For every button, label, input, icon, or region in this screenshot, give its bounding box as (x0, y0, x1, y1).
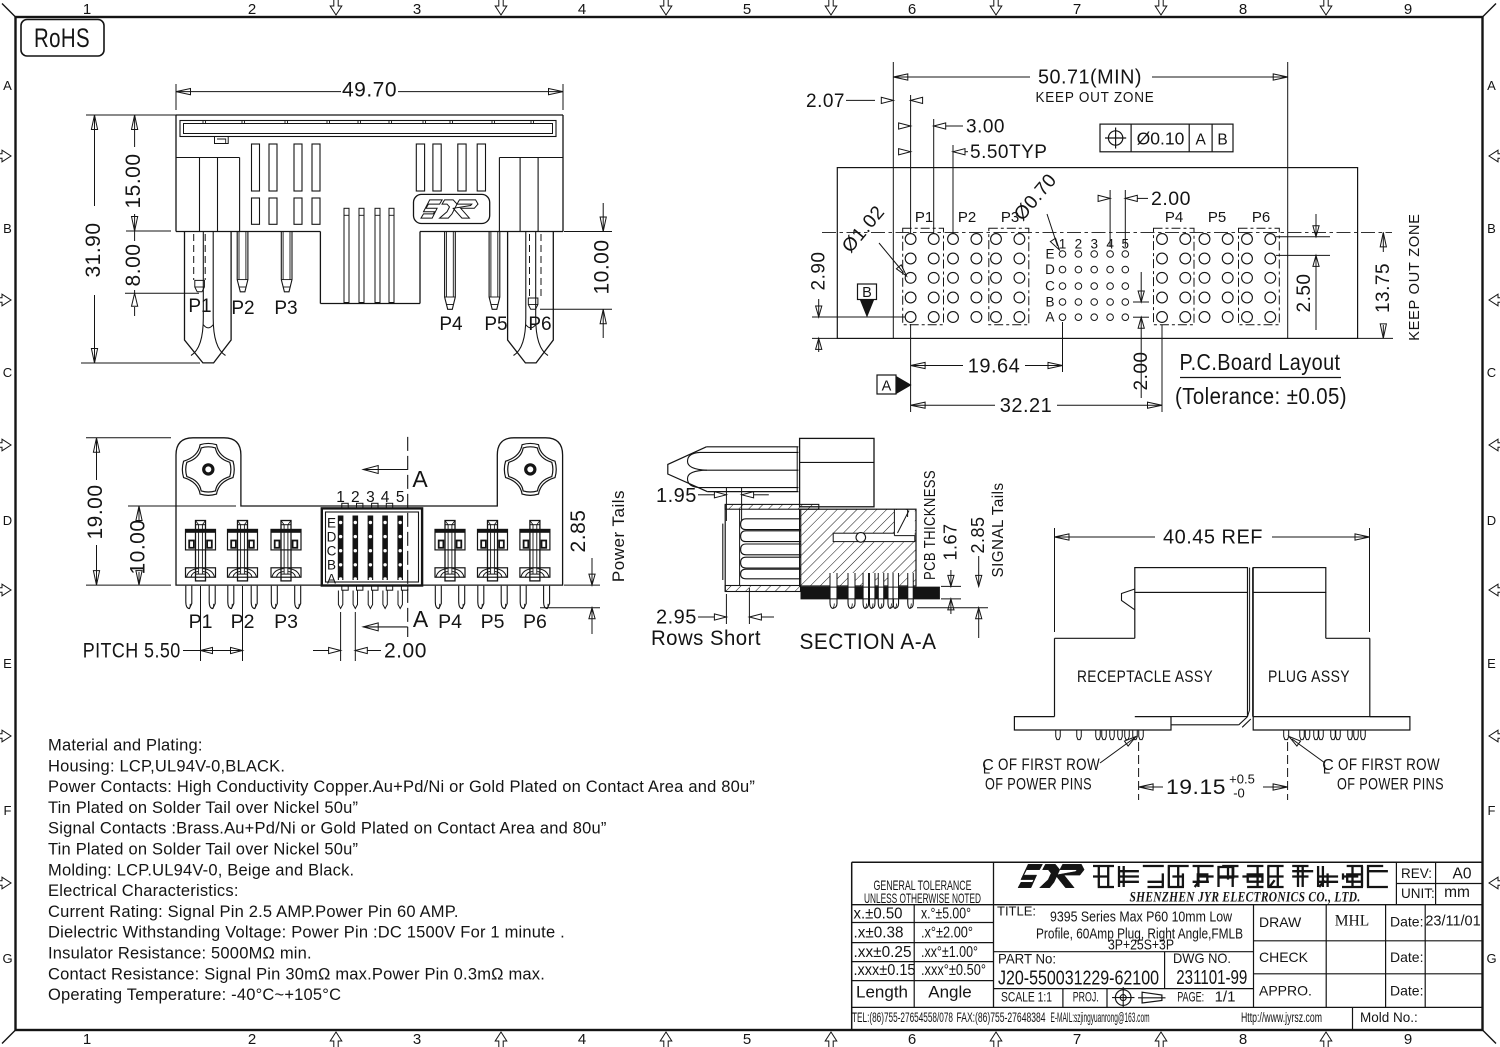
svg-text:2: 2 (248, 1031, 256, 1047)
svg-text:P.C.Board Layout: P.C.Board Layout (1180, 349, 1341, 375)
svg-text:C: C (1045, 279, 1055, 294)
pcb pad boundary P3 (989, 228, 1029, 324)
section A-A receptacle comb (724, 504, 726, 591)
bottom view power contact P4 (435, 529, 465, 550)
svg-text:Current Rating: Signal Pin: Current Rating: Signal Pin 2.5 AMP.Power… (48, 903, 459, 921)
svg-text:KEEP OUT ZONE: KEEP OUT ZONE (1036, 90, 1155, 106)
RoHS label box (21, 20, 104, 57)
svg-text:B: B (327, 558, 336, 573)
assembly receptacle pins (1056, 730, 1061, 740)
svg-text:15.00: 15.00 (122, 153, 145, 208)
svg-text:TITLE:: TITLE: (997, 904, 1036, 919)
svg-text:E: E (1045, 247, 1054, 262)
svg-text:P5: P5 (1208, 209, 1226, 226)
svg-text:2.07: 2.07 (806, 91, 845, 112)
svg-text:C: C (3, 365, 12, 380)
section A-A power pin side (706, 447, 798, 492)
svg-text:A: A (1487, 78, 1496, 93)
centering mark bottom (495, 1032, 507, 1047)
corner diagonal TR (1483, 4, 1497, 18)
svg-text:2.00: 2.00 (1151, 188, 1191, 210)
dimension 2.00 top (1109, 190, 1111, 247)
svg-text:PROJ.: PROJ. (1073, 989, 1099, 1005)
svg-text:2.85: 2.85 (567, 510, 590, 553)
svg-text:FAX:(86)755-27648384: FAX:(86)755-27648384 (957, 1010, 1046, 1025)
centering mark top (330, 0, 342, 15)
title block outer (852, 861, 1483, 863)
svg-text:DWG NO.: DWG NO. (1173, 950, 1231, 966)
centering mark top (990, 0, 1002, 15)
svg-text:4: 4 (578, 1031, 586, 1047)
dimension 19.00 (86, 437, 171, 439)
svg-text:23/11/01: 23/11/01 (1425, 914, 1480, 930)
bottom view power contact P6 (520, 529, 550, 550)
svg-text:B: B (1045, 295, 1054, 310)
svg-text:31.90: 31.90 (82, 222, 105, 277)
svg-text:Power Tails: Power Tails (609, 490, 628, 582)
svg-text:32.21: 32.21 (1000, 395, 1053, 417)
svg-text:P4: P4 (438, 611, 462, 633)
dimension 2.85 bottom view (564, 584, 600, 586)
svg-text:1.67: 1.67 (940, 523, 960, 560)
svg-text:7: 7 (1073, 1, 1081, 18)
centering mark bottom (330, 1032, 342, 1047)
svg-text:49.70: 49.70 (342, 79, 397, 102)
svg-text:B: B (1487, 221, 1496, 236)
dimension 32.21 (910, 372, 912, 412)
svg-text:2.85: 2.85 (968, 516, 988, 553)
dimension 2.00 rows (1133, 301, 1149, 303)
pcb pad boundary P4 (1154, 228, 1195, 324)
svg-text:19.15: 19.15 (1166, 776, 1226, 799)
svg-text:19.00: 19.00 (84, 484, 107, 539)
svg-text:Date:: Date: (1390, 914, 1423, 930)
svg-text:19.64: 19.64 (968, 356, 1021, 378)
dimension pitch 5.50 (200, 586, 202, 661)
title block tolerance table (852, 904, 1483, 906)
section A-A solder tail 1 (830, 573, 837, 599)
centering mark top (495, 0, 507, 15)
svg-text:A: A (1196, 132, 1207, 149)
svg-text:5: 5 (396, 489, 405, 506)
svg-text:Operating Temperature: -40°C~: Operating Temperature: -40°C~+105°C (48, 986, 341, 1004)
svg-text:231101-99: 231101-99 (1176, 967, 1247, 989)
corner diagonal TL (2, 4, 16, 18)
rev and unit cells (1395, 862, 1397, 905)
assembly joint plate (1171, 716, 1247, 718)
company name chinese (1093, 866, 1114, 887)
bottom view signal column 1 contacts (338, 516, 344, 581)
centering mark left (0, 877, 11, 889)
svg-text:E: E (1487, 656, 1496, 671)
svg-text:2: 2 (1075, 237, 1083, 252)
svg-text:SECTION A-A: SECTION A-A (800, 629, 937, 654)
svg-text:PLUG ASSY: PLUG ASSY (1268, 667, 1350, 686)
section A-A solder tail 5 (878, 573, 884, 599)
svg-text:PART No:: PART No: (998, 951, 1056, 967)
svg-text:P6: P6 (523, 611, 547, 633)
svg-text:Angle: Angle (928, 983, 971, 1002)
svg-text:P5: P5 (484, 314, 507, 335)
svg-text:RECEPTACLE ASSY: RECEPTACLE ASSY (1077, 667, 1213, 686)
svg-text:Rows Short: Rows Short (651, 626, 761, 650)
dimension 40.45 REF (1054, 528, 1056, 632)
draw check appro cells (1325, 905, 1327, 1008)
dimension 31.90 (86, 114, 176, 116)
corner diagonal BR (1483, 1030, 1497, 1044)
svg-text:.x°±2.00°: .x°±2.00° (921, 925, 973, 942)
position tolerance frame (1100, 124, 1233, 152)
bottom view signal bottom tabs and tails (342, 586, 348, 590)
centering mark top (660, 0, 672, 15)
svg-text:Ø0.10: Ø0.10 (1137, 129, 1185, 149)
svg-text:8: 8 (1239, 1, 1247, 18)
section A-A receptacle shell top wall (725, 504, 819, 509)
svg-text:L: L (1323, 762, 1330, 777)
section A-A solder tail 7 (893, 573, 899, 599)
svg-text:OF FIRST ROW: OF FIRST ROW (998, 756, 1100, 774)
dimension 2.90 (812, 316, 905, 318)
svg-text:6: 6 (908, 1031, 916, 1047)
svg-text:J20-550031229-62100: J20-550031229-62100 (998, 968, 1159, 990)
svg-text:P4: P4 (439, 314, 463, 335)
section A-A solder tail 6 (888, 573, 894, 599)
svg-text:1: 1 (83, 1031, 91, 1047)
bottom view power contact P5 (478, 529, 508, 550)
svg-text:.x±0.38: .x±0.38 (854, 925, 904, 942)
datum flag B (858, 284, 877, 300)
svg-text:.xxx°±0.50°: .xxx°±0.50° (921, 962, 986, 979)
dimension 2.07 (910, 95, 912, 233)
pcb power holes right group (1157, 234, 1168, 245)
svg-text:5: 5 (743, 1, 751, 18)
centering mark left (0, 294, 11, 306)
assembly receptacle flange (1014, 717, 1171, 730)
centering mark right (1489, 584, 1500, 596)
dimension 13.75 keep out zone (1358, 337, 1393, 339)
scale row (1062, 989, 1064, 1008)
centering mark left (0, 730, 11, 742)
svg-text:3: 3 (1090, 237, 1098, 252)
svg-text:SIGNAL Tails: SIGNAL Tails (990, 483, 1007, 578)
svg-text:P3: P3 (274, 298, 297, 319)
dimension 50.71 keep out zone (893, 76, 1030, 78)
centering mark right (1489, 294, 1500, 306)
svg-text:RoHS: RoHS (34, 23, 90, 53)
pcb pad boundary P6 (1239, 228, 1280, 324)
bottom view power contact P2 (228, 529, 258, 550)
svg-text:F: F (4, 803, 12, 818)
centering mark top (825, 0, 837, 15)
svg-text:P6: P6 (528, 314, 551, 335)
svg-text:DRAW: DRAW (1259, 914, 1302, 930)
svg-text:1.95: 1.95 (656, 485, 697, 507)
svg-text:2.50: 2.50 (1294, 274, 1315, 313)
part no cell (994, 988, 1254, 990)
bottom view signal column 2 contacts (353, 516, 359, 581)
svg-text:OF POWER PINS: OF POWER PINS (1337, 776, 1444, 794)
dimension 10.00 bottom view (128, 505, 236, 507)
svg-text:PITCH 5.50: PITCH 5.50 (83, 640, 181, 663)
svg-text:Dielectric Withstanding Volt: Dielectric Withstanding Voltage: Power P… (48, 924, 565, 942)
svg-text:UNIT:: UNIT: (1401, 886, 1435, 901)
pcb layout board outline (837, 168, 1357, 339)
bottom view signal column 5 contacts (397, 516, 403, 581)
centering mark bottom (660, 1032, 672, 1047)
svg-text:5.50TYP: 5.50TYP (970, 142, 1047, 163)
centering mark bottom (825, 1032, 837, 1047)
signal pin P5 front (489, 232, 500, 310)
section A-A receptacle shell bottom wall (725, 586, 800, 592)
svg-text:D: D (3, 513, 12, 528)
svg-text:Tin Plated on Solder Tail: Tin Plated on Solder Tail over Nickel 50… (48, 841, 358, 859)
dimension 19.15 (1138, 742, 1140, 800)
svg-text:C: C (1487, 365, 1496, 380)
dimension 2.50 (1276, 236, 1330, 238)
svg-text:4: 4 (578, 1, 586, 18)
pcb keep-out boundary left (892, 62, 894, 338)
svg-text:Power Contacts: High Conduct: Power Contacts: High Conductivity Copper… (48, 778, 755, 796)
front view connector body outline (176, 114, 563, 116)
svg-text:A: A (413, 606, 429, 632)
front view center posts (344, 208, 349, 302)
front view latch detail (215, 137, 229, 144)
svg-text:10.00: 10.00 (591, 239, 614, 294)
svg-text:P2: P2 (958, 209, 976, 226)
svg-text:13.75: 13.75 (1373, 263, 1394, 313)
bottom view signal column 3 contacts (368, 516, 374, 581)
svg-text:OF POWER PINS: OF POWER PINS (985, 776, 1092, 794)
signal pin P3 front (281, 232, 292, 292)
svg-text:REV:: REV: (1401, 866, 1432, 881)
svg-text:A: A (1045, 310, 1054, 325)
svg-text:1/1: 1/1 (1215, 989, 1236, 1006)
centering mark left (0, 584, 11, 596)
svg-text:P4: P4 (1165, 209, 1183, 226)
svg-text:L: L (983, 762, 990, 777)
front view top slot (180, 121, 556, 137)
svg-text:Http://www.jyrsz.com: Http://www.jyrsz.com (1241, 1010, 1322, 1025)
svg-text:8: 8 (1239, 1031, 1247, 1047)
svg-text:OF FIRST ROW: OF FIRST ROW (1338, 756, 1440, 774)
front view right shoulder (499, 157, 563, 159)
svg-text:E-MAIL:szjingyuanrong@163.com: E-MAIL:szjingyuanrong@163.com (1051, 1010, 1150, 1025)
corner diagonal BL (2, 1030, 16, 1044)
centering mark left (0, 150, 11, 162)
svg-text:D: D (327, 529, 337, 544)
assembly plug pins (1284, 730, 1289, 740)
svg-text:2.00: 2.00 (384, 640, 427, 663)
assembly mating interface (1249, 568, 1251, 710)
assembly plug outline (1253, 568, 1326, 593)
section cut line A-A (407, 437, 409, 637)
svg-text:Insulator Resistance: 5000MΩ: Insulator Resistance: 5000MΩ min. (48, 945, 312, 963)
front view vent slots right (416, 144, 424, 191)
centering mark top (1155, 0, 1167, 15)
centering mark right (1489, 439, 1500, 451)
svg-text:B: B (862, 285, 872, 301)
svg-text:PCB THICKNESS: PCB THICKNESS (922, 470, 939, 580)
svg-text:P2: P2 (231, 298, 254, 319)
svg-text:CHECK: CHECK (1259, 949, 1309, 965)
svg-text:.xxx±0.15: .xxx±0.15 (854, 962, 916, 979)
dimension 2.85 signal tails (917, 607, 988, 609)
front view left shoulder (176, 157, 240, 159)
power pin P6 front (508, 232, 554, 363)
dimension 5.50TYP (952, 145, 954, 233)
svg-text:PAGE:: PAGE: (1177, 989, 1204, 1005)
svg-text:2.90: 2.90 (809, 252, 830, 291)
svg-text:D: D (1487, 513, 1496, 528)
bottom view signal column 4 contacts (382, 516, 388, 581)
bottom view power contact P3 (271, 529, 301, 550)
svg-text:B: B (3, 221, 12, 236)
bottom view signal block (322, 508, 422, 585)
svg-text:Date:: Date: (1390, 983, 1423, 999)
svg-text:A: A (3, 78, 12, 93)
svg-text:P1: P1 (915, 209, 933, 226)
svg-text:7: 7 (1073, 1031, 1081, 1047)
dimension 19.64 (910, 324, 912, 372)
svg-text:Tin Plated on Solder Tail: Tin Plated on Solder Tail over Nickel 50… (48, 799, 358, 817)
centering mark bottom (990, 1032, 1002, 1047)
centering mark right (1489, 150, 1500, 162)
bottom view power contact P1 (186, 529, 216, 550)
svg-text:.xx±0.25: .xx±0.25 (854, 944, 912, 961)
svg-text:8.00: 8.00 (122, 244, 145, 287)
section A-A solder tail 4 (869, 573, 875, 599)
svg-text:P1: P1 (188, 296, 211, 317)
svg-text:x.°±5.00°: x.°±5.00° (921, 906, 971, 923)
signal pin P4 front (445, 232, 456, 310)
svg-text:SCALE 1:1: SCALE 1:1 (1001, 989, 1052, 1005)
svg-text:P5: P5 (481, 611, 505, 633)
centering mark bottom (1155, 1032, 1167, 1047)
dimension 3.00 (933, 119, 935, 233)
company logo SDR (1018, 864, 1043, 887)
assembly receptacle outline (1135, 568, 1248, 593)
assembly plug flange (1253, 717, 1410, 730)
section A-A molding cross-section hatched (800, 509, 916, 586)
signal pin P2 front (237, 232, 248, 292)
svg-text:A: A (882, 379, 892, 395)
section A-A pcb bar (801, 587, 940, 599)
svg-text:5: 5 (743, 1031, 751, 1047)
svg-text:E: E (327, 515, 336, 530)
front view vent slots left (252, 144, 260, 191)
dimension 15.00 (126, 230, 171, 232)
dimension 2.95 (725, 594, 727, 624)
svg-text:1: 1 (83, 1, 91, 18)
bottom view mounting clover left (182, 443, 234, 495)
svg-text:.xx°±1.00°: .xx°±1.00° (921, 944, 978, 961)
power pin P1 front (185, 232, 232, 363)
svg-text:UNLESS OTHERWISE NOTED: UNLESS OTHERWISE NOTED (864, 890, 981, 906)
pcb power holes left group (905, 234, 916, 245)
section A-A solder tail 8 (908, 573, 914, 599)
datum flag A (877, 375, 896, 394)
centering mark top (1320, 0, 1332, 15)
svg-text:6: 6 (908, 1, 916, 18)
front view logo box (414, 194, 490, 223)
svg-text:Date:: Date: (1390, 949, 1423, 965)
svg-text:B: B (1217, 132, 1227, 149)
svg-text:D: D (1045, 262, 1055, 277)
bottom view housing outline (176, 438, 563, 585)
dimension 1.95 (725, 487, 727, 521)
svg-text:C: C (327, 544, 337, 559)
svg-text:(Tolerance: ±0.05): (Tolerance: ±0.05) (1175, 383, 1347, 409)
svg-text:A0: A0 (1453, 866, 1472, 883)
svg-text:A: A (327, 572, 336, 587)
svg-text:9: 9 (1404, 1031, 1412, 1047)
pcb signal hole grid (1059, 251, 1066, 258)
svg-text:10.00: 10.00 (127, 519, 150, 574)
svg-text:APPRO.: APPRO. (1259, 983, 1312, 999)
svg-text:3: 3 (413, 1, 421, 18)
svg-text:TEL:(86)755-27654558/078: TEL:(86)755-27654558/078 (852, 1010, 953, 1025)
svg-text:Mold No.:: Mold No.: (1360, 1010, 1418, 1025)
pcb keep-out boundary right (1287, 62, 1289, 338)
dimension 10.00 (564, 231, 612, 233)
svg-text:Electrical Characteristics:: Electrical Characteristics: (48, 882, 239, 900)
svg-text:-0: -0 (1233, 786, 1245, 801)
svg-text:3P+25S+3P: 3P+25S+3P (1108, 937, 1174, 954)
svg-text:Contact Resistance: Signal P: Contact Resistance: Signal Pin 30mΩ max.… (48, 965, 545, 983)
svg-text:G: G (2, 951, 12, 966)
svg-text:Molding: LCP.UL94V-0, Beige: Molding: LCP.UL94V-0, Beige and Black. (48, 861, 354, 879)
section A-A solder tail 3 (863, 573, 869, 599)
svg-text:MHL: MHL (1335, 913, 1369, 930)
svg-text:SHENZHEN JYR ELECTRONICS CO.,: SHENZHEN JYR ELECTRONICS CO., LTD. (1130, 890, 1361, 906)
bottom view mounting clover right (504, 443, 556, 495)
svg-text:50.71(MIN): 50.71(MIN) (1038, 67, 1142, 89)
dimension 1.67 (941, 585, 961, 587)
svg-text:40.45 REF: 40.45 REF (1163, 527, 1263, 549)
centering mark left (0, 439, 11, 451)
svg-text:Housing: LCP,UL94V-0,BLACK.: Housing: LCP,UL94V-0,BLACK. (48, 757, 285, 775)
centering mark bottom (1320, 1032, 1332, 1047)
svg-text:F: F (1488, 803, 1496, 818)
svg-text:9395 Series Max P60 10mm: 9395 Series Max P60 10mm Low (1050, 909, 1232, 926)
svg-text:G: G (1486, 951, 1496, 966)
svg-text:3: 3 (413, 1031, 421, 1047)
svg-text:P6: P6 (1252, 209, 1270, 226)
svg-text:Length: Length (856, 983, 908, 1002)
svg-text:9: 9 (1404, 1, 1412, 18)
section A-A plug vertical body (800, 438, 874, 506)
svg-text:2: 2 (248, 1, 256, 18)
centering mark right (1489, 877, 1500, 889)
centering mark right (1489, 730, 1500, 742)
svg-text:x.±0.50: x.±0.50 (854, 906, 903, 923)
dimension 49.70 (175, 84, 177, 110)
svg-text:2.00: 2.00 (1131, 352, 1152, 391)
pcb pad boundary P1 (903, 228, 944, 324)
svg-text:A: A (412, 466, 428, 492)
pcb centerline (822, 231, 1392, 233)
section A-A solder tail 2 (848, 573, 855, 599)
dimension 2.00 bottom view (340, 612, 342, 661)
svg-text:Material and Plating:: Material and Plating: (48, 737, 203, 755)
svg-text:E: E (3, 656, 12, 671)
dimension 8.00 (125, 292, 199, 294)
svg-text:3.00: 3.00 (966, 117, 1005, 138)
svg-text:1: 1 (1059, 237, 1067, 252)
svg-text:P3: P3 (274, 611, 298, 633)
svg-text:+0.5: +0.5 (1229, 772, 1255, 787)
svg-text:mm: mm (1444, 884, 1470, 901)
